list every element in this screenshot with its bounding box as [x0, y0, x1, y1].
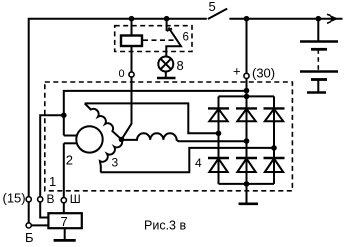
- relay box dashed: [115, 26, 192, 52]
- stator coil phase 3: [100, 140, 122, 173]
- wire terminal 0 to star point: [122, 77, 132, 139]
- stator coil phase 1: [85, 103, 122, 139]
- wire contact 6: [166, 19, 168, 31]
- svg-text:Б: Б: [25, 230, 34, 245]
- node junction battery: [316, 16, 322, 22]
- terminal B batt: [26, 223, 31, 228]
- diode VD1 column: [218, 96, 220, 183]
- svg-text:7: 7: [61, 214, 68, 229]
- wire top bus left segment: [29, 19, 207, 200]
- diode VD2 top: [236, 107, 257, 109]
- svg-text:5: 5: [209, 0, 216, 14]
- wire plus below terminal: [246, 79, 248, 97]
- wire Sh to regulator: [63, 203, 65, 214]
- battery plate short 1: [311, 48, 327, 51]
- switch 5: [208, 9, 227, 19]
- node bottom bus ground: [244, 181, 250, 187]
- diode VD6 bottom: [264, 157, 285, 159]
- wire relay coil top: [131, 19, 133, 36]
- svg-text:Рис.3 в: Рис.3 в: [144, 219, 186, 233]
- relay coil: [121, 36, 142, 47]
- wire terminal 15 to B: [28, 202, 30, 223]
- battery stem bottom: [317, 80, 319, 93]
- regulator 7: [48, 213, 81, 228]
- node phase3: [271, 145, 277, 151]
- battery plate long 2: [300, 70, 338, 73]
- svg-text:В: В: [47, 192, 55, 206]
- battery stem top: [317, 19, 319, 42]
- diode VD5 bottom: [236, 157, 257, 159]
- diode VD2 column: [246, 96, 248, 183]
- node phase2: [244, 138, 250, 144]
- wire branch to terminal V: [40, 115, 64, 197]
- ground regulator: [54, 239, 76, 242]
- diode VD3 column: [273, 96, 275, 183]
- wire rectifier ground stem: [246, 184, 248, 204]
- terminal plus 30: [244, 73, 249, 78]
- node bus A to plus: [244, 88, 250, 94]
- svg-text:(30): (30): [252, 66, 275, 81]
- bus B coil1 to rectifier: [85, 103, 219, 133]
- wire lower brush to terminal Sh: [63, 143, 65, 198]
- diode VD1 top: [208, 107, 229, 109]
- wire relay coil to terminal 0: [131, 46, 133, 72]
- wire V to regulator: [40, 202, 48, 218]
- lamp 8: [158, 57, 173, 72]
- battery plate short 2: [311, 78, 327, 81]
- terminal V: [38, 197, 43, 202]
- svg-text:6: 6: [183, 31, 189, 43]
- ground lamp: [157, 77, 176, 80]
- contact 6 blade: [166, 28, 181, 57]
- svg-text:Ш: Ш: [70, 192, 81, 206]
- arrow output to loads: [329, 15, 339, 23]
- diode VD3 top: [264, 107, 285, 109]
- brush upper: [64, 135, 78, 137]
- relay mechanical link dashed: [143, 39, 177, 41]
- node junction relay coil: [129, 16, 135, 22]
- wire top bus right segment: [229, 18, 342, 20]
- wire plus from key to rectifier: [246, 19, 248, 74]
- svg-text:3: 3: [112, 156, 119, 170]
- terminal Sh: [61, 198, 66, 203]
- rectifier bottom bus: [219, 183, 275, 185]
- wire lamp to ground: [165, 72, 167, 79]
- node junction plus wire: [244, 16, 250, 22]
- svg-text:2: 2: [66, 153, 73, 168]
- wire B to regulator: [31, 224, 48, 226]
- terminal 0: [129, 72, 134, 77]
- wire regulator ground stem: [64, 228, 66, 240]
- svg-text:0: 0: [119, 68, 125, 80]
- battery dashed middle: [317, 49, 319, 71]
- battery GB plate long 1: [300, 40, 338, 43]
- ground battery: [307, 91, 326, 94]
- stator coil phase 2: [122, 133, 247, 141]
- rotor field winding 2: [76, 126, 102, 152]
- svg-text:4: 4: [195, 156, 202, 170]
- terminal 15: [26, 197, 31, 202]
- bus A field to plus: [64, 91, 247, 136]
- rectifier top bus: [219, 95, 275, 97]
- svg-text:1: 1: [49, 174, 56, 189]
- node junction contact: [164, 16, 170, 22]
- brush lower: [64, 142, 78, 144]
- generator box 1 dashed: [45, 82, 293, 191]
- wire coil3 to rectifier: [101, 148, 275, 172]
- node top bus plus: [244, 94, 250, 100]
- diode VD4 bottom: [208, 157, 229, 159]
- node star point: [119, 137, 125, 143]
- node phase1: [216, 131, 222, 137]
- svg-text:8: 8: [177, 58, 184, 73]
- svg-text:+: +: [233, 64, 241, 79]
- contact 6 fixed tip: [167, 29, 172, 32]
- ground rectifier: [239, 203, 259, 206]
- svg-text:(15): (15): [3, 190, 26, 205]
- node bus A terminal V branch: [61, 112, 67, 118]
